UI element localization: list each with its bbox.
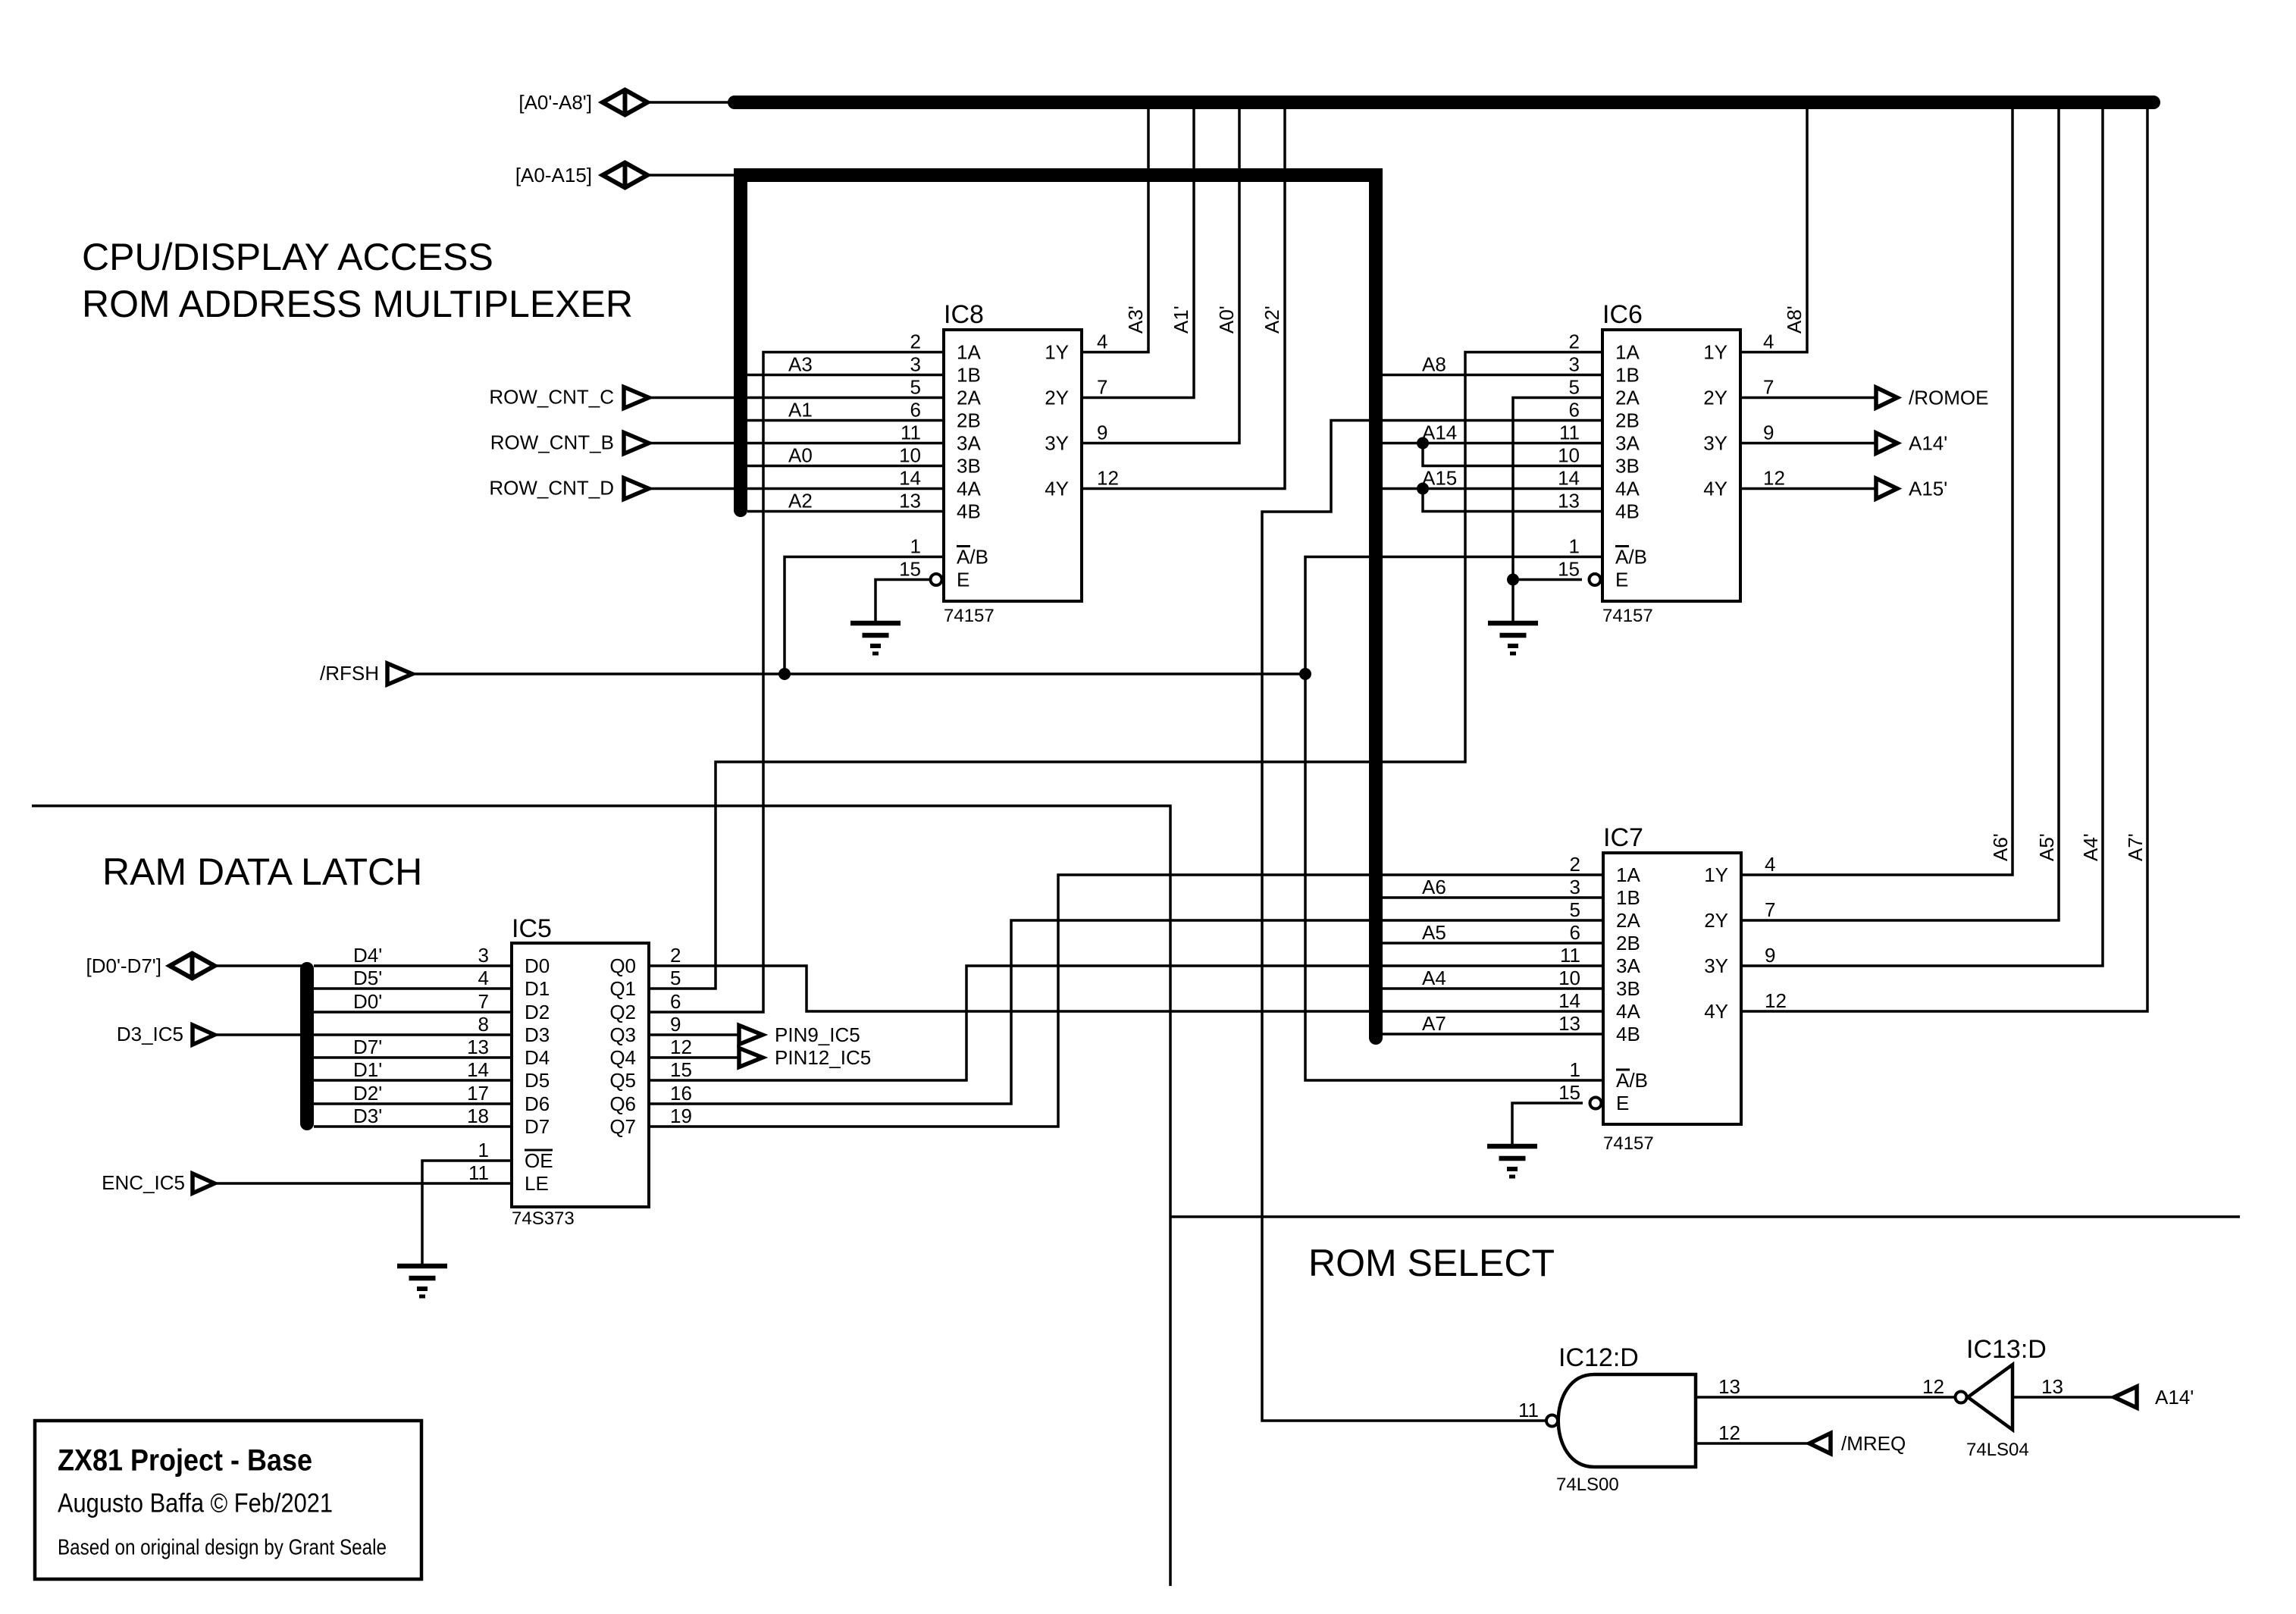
svg-text:14: 14 xyxy=(1558,989,1580,1012)
svg-text:11: 11 xyxy=(1518,1399,1539,1421)
svg-text:ZX81 Project - Base: ZX81 Project - Base xyxy=(58,1444,312,1478)
input arrow /RFSH xyxy=(387,663,412,685)
svg-text:Q2: Q2 xyxy=(609,1001,636,1023)
svg-text:7: 7 xyxy=(1763,376,1774,399)
input arrow ENC_IC5 xyxy=(193,1174,215,1193)
svg-text:IC12:D: IC12:D xyxy=(1558,1343,1639,1372)
svg-text:9: 9 xyxy=(1765,944,1775,967)
svg-text:1: 1 xyxy=(1569,535,1580,558)
svg-text:Q1: Q1 xyxy=(609,977,636,1000)
ground IC5 OE xyxy=(397,1266,447,1296)
svg-text:ROW_CNT_B: ROW_CNT_B xyxy=(490,431,614,454)
svg-text:3B: 3B xyxy=(1615,455,1640,478)
svg-text:6: 6 xyxy=(1569,399,1580,422)
svg-text:1Y: 1Y xyxy=(1045,341,1069,364)
svg-text:IC13:D: IC13:D xyxy=(1966,1335,2047,1364)
svg-text:2Y: 2Y xyxy=(1045,387,1069,409)
svg-text:74S373: 74S373 xyxy=(512,1208,575,1229)
svg-text:3: 3 xyxy=(1570,876,1580,898)
svg-text:9: 9 xyxy=(670,1013,681,1036)
svg-text:1: 1 xyxy=(1570,1058,1580,1081)
output arrow A14' xyxy=(1876,433,1897,453)
svg-text:1A: 1A xyxy=(957,341,981,364)
wire A6 from bus to IC7 1B xyxy=(1383,896,1603,899)
svg-text:74157: 74157 xyxy=(1602,606,1653,626)
input arrow ROW_CNT_D xyxy=(624,478,649,500)
svg-text:6: 6 xyxy=(1570,921,1580,944)
wire A15 to IC6 4B xyxy=(1423,489,1602,512)
svg-text:A15': A15' xyxy=(1909,478,1947,500)
svg-text:7: 7 xyxy=(478,990,489,1013)
wire A4 from bus to IC7 3B xyxy=(1383,987,1603,990)
svg-text:D1': D1' xyxy=(353,1058,382,1081)
svg-text:OE: OE xyxy=(525,1149,553,1172)
svg-text:11: 11 xyxy=(901,422,921,444)
output arrow PIN12_IC5 xyxy=(739,1048,763,1067)
wire ROW_CNT_D to IC8 4A xyxy=(649,487,944,490)
svg-text:11: 11 xyxy=(1560,944,1580,967)
svg-text:12: 12 xyxy=(670,1036,692,1058)
svg-text:Q5: Q5 xyxy=(609,1069,636,1092)
svg-text:RAM DATA LATCH: RAM DATA LATCH xyxy=(102,851,422,893)
wire bus entry A0-A15 to bus xyxy=(647,174,734,177)
wire IC7 2Y to bus A5' xyxy=(1741,102,2059,920)
svg-text:4A: 4A xyxy=(957,478,981,500)
svg-text:D6: D6 xyxy=(525,1092,550,1115)
svg-text:PIN12_IC5: PIN12_IC5 xyxy=(775,1046,871,1069)
arrow A14' input xyxy=(2114,1387,2137,1408)
wire IC8 2Y to bus A1' xyxy=(1082,102,1194,398)
svg-text:A/B: A/B xyxy=(957,546,988,569)
IC13:D input bubble pin 12 xyxy=(1956,1392,1967,1403)
input arrow D3_IC5 xyxy=(193,1025,215,1045)
wire A15 from bus to IC6 4A xyxy=(1383,487,1602,490)
wire D5' from bus to IC5 D1 xyxy=(314,987,512,990)
svg-text:4: 4 xyxy=(478,967,489,989)
svg-text:13: 13 xyxy=(2041,1375,2063,1398)
svg-text:Q7: Q7 xyxy=(609,1115,636,1138)
wire A7 from bus to IC7 4B xyxy=(1383,1033,1603,1036)
wire IC13:D pin 13 to A14' xyxy=(2013,1396,2114,1399)
svg-text:19: 19 xyxy=(670,1105,692,1127)
svg-text:D0': D0' xyxy=(353,990,382,1013)
arrow /MREQ xyxy=(1809,1434,1831,1454)
output arrow A15' xyxy=(1876,478,1897,499)
svg-text:ENC_IC5: ENC_IC5 xyxy=(102,1171,185,1194)
wire IC8 1Y to bus A3' xyxy=(1082,102,1148,353)
wire IC5 Q7 to IC7 1A xyxy=(649,875,1603,1127)
svg-text:12: 12 xyxy=(1765,989,1787,1012)
svg-text:1A: 1A xyxy=(1615,341,1640,364)
wire D1' from bus to IC5 D5 xyxy=(314,1079,512,1082)
svg-text:D4': D4' xyxy=(353,944,382,967)
svg-text:3: 3 xyxy=(1569,353,1580,376)
svg-text:D2': D2' xyxy=(353,1082,382,1105)
svg-text:ROW_CNT_D: ROW_CNT_D xyxy=(489,477,614,500)
wire IC5 Q5 to IC7 3A xyxy=(649,966,1603,1080)
svg-text:A/B: A/B xyxy=(1616,1069,1648,1092)
svg-text:ROW_CNT_C: ROW_CNT_C xyxy=(489,386,614,409)
IC5 74S373 latch box xyxy=(512,943,649,1207)
svg-text:[A0'-A8']: [A0'-A8'] xyxy=(518,91,592,114)
wire A2 from bus to IC8 4B xyxy=(747,510,944,513)
svg-text:A2: A2 xyxy=(788,490,813,512)
svg-text:4Y: 4Y xyxy=(1704,1000,1728,1023)
svg-text:5: 5 xyxy=(670,967,681,989)
svg-text:11: 11 xyxy=(468,1161,489,1184)
svg-text:3: 3 xyxy=(910,353,921,376)
svg-text:IC6: IC6 xyxy=(1602,300,1643,329)
svg-text:5: 5 xyxy=(910,376,921,399)
bus [D0'-D7'] vertical xyxy=(300,969,314,1124)
wire IC5 Q6 to IC7 2A xyxy=(649,920,1603,1104)
svg-text:Augusto Baffa © Feb/2021: Augusto Baffa © Feb/2021 xyxy=(58,1489,333,1518)
svg-text:A1': A1' xyxy=(1170,306,1192,334)
svg-text:A2': A2' xyxy=(1261,306,1283,334)
svg-text:Q0: Q0 xyxy=(609,954,636,977)
svg-text:17: 17 xyxy=(467,1082,489,1105)
svg-text:A1: A1 xyxy=(788,399,813,422)
svg-text:2Y: 2Y xyxy=(1703,387,1727,409)
svg-text:A14': A14' xyxy=(2155,1386,2194,1409)
svg-text:/RFSH: /RFSH xyxy=(320,662,379,685)
svg-text:8: 8 xyxy=(478,1013,489,1036)
ground IC6 2A/E xyxy=(1488,623,1538,653)
wire IC6 2Y to /ROMOE xyxy=(1740,396,1876,400)
wire IC6 1Y to bus A8' xyxy=(1740,102,1807,353)
svg-text:A7': A7' xyxy=(2124,833,2147,861)
svg-text:A8': A8' xyxy=(1783,306,1806,334)
svg-text:3A: 3A xyxy=(1616,954,1640,977)
wire D7' from bus to IC5 D4 xyxy=(314,1056,512,1059)
svg-text:7: 7 xyxy=(1765,898,1775,921)
svg-text:4B: 4B xyxy=(1615,500,1640,523)
svg-text:ROM ADDRESS MULTIPLEXER: ROM ADDRESS MULTIPLEXER xyxy=(82,283,633,325)
svg-text:2A: 2A xyxy=(1615,387,1640,409)
svg-text:A3': A3' xyxy=(1124,306,1147,334)
svg-text:A/B: A/B xyxy=(1615,546,1647,569)
svg-text:7: 7 xyxy=(1097,376,1107,399)
svg-text:D2: D2 xyxy=(525,1001,550,1023)
svg-text:D3': D3' xyxy=(353,1105,382,1127)
svg-text:14: 14 xyxy=(899,467,921,490)
input arrow ROW_CNT_B xyxy=(624,433,649,454)
svg-text:13: 13 xyxy=(899,490,921,512)
IC8 74157 multiplexer box xyxy=(944,330,1082,601)
wire A5 from bus to IC7 2B xyxy=(1383,942,1603,945)
svg-text:D5': D5' xyxy=(353,967,382,989)
svg-text:4A: 4A xyxy=(1616,1000,1640,1023)
wire IC7 E to ground xyxy=(1512,1103,1583,1146)
svg-text:4Y: 4Y xyxy=(1045,478,1069,500)
svg-text:15: 15 xyxy=(899,558,921,581)
svg-text:13: 13 xyxy=(467,1036,489,1058)
svg-text:E: E xyxy=(1615,569,1628,591)
bus entry [D0'-D7'] xyxy=(170,954,215,979)
bus [A0'-A8'] top horizontal xyxy=(735,96,2153,109)
svg-text:Q3: Q3 xyxy=(609,1023,636,1046)
svg-text:A8: A8 xyxy=(1422,353,1446,376)
svg-text:9: 9 xyxy=(1097,422,1107,444)
svg-text:[D0'-D7']: [D0'-D7'] xyxy=(86,954,161,977)
svg-text:PIN9_IC5: PIN9_IC5 xyxy=(775,1023,860,1046)
svg-text:A7: A7 xyxy=(1422,1012,1446,1035)
svg-text:3: 3 xyxy=(478,944,489,967)
wire D3_IC5 to IC5 D3 xyxy=(215,1033,512,1036)
svg-text:2Y: 2Y xyxy=(1704,909,1728,932)
wire IC7 3Y to bus A4' xyxy=(1741,102,2103,966)
svg-text:2B: 2B xyxy=(1616,932,1640,954)
wire A14 to IC6 3B xyxy=(1423,443,1602,466)
svg-text:2: 2 xyxy=(670,944,681,967)
svg-text:16: 16 xyxy=(670,1082,692,1105)
ground IC8 E xyxy=(850,623,901,653)
IC6 74157 multiplexer box xyxy=(1602,330,1740,601)
wire IC5 Q4 to PIN12_IC5 xyxy=(649,1056,738,1059)
wire D2' from bus to IC5 D6 xyxy=(314,1102,512,1105)
svg-text:1B: 1B xyxy=(1615,364,1640,387)
svg-text:2: 2 xyxy=(910,331,921,353)
svg-text:IC7: IC7 xyxy=(1603,823,1643,852)
wire IC6 2B to NAND IC12:D input 11 xyxy=(1262,421,1602,1421)
wire A8 from bus to IC6 1B xyxy=(1383,374,1602,377)
wire IC6 2A to ground xyxy=(1513,398,1602,624)
wire /RFSH xyxy=(412,672,1305,675)
svg-text:4Y: 4Y xyxy=(1703,478,1727,500)
svg-text:IC5: IC5 xyxy=(512,914,552,943)
svg-text:D3: D3 xyxy=(525,1023,550,1046)
svg-text:13: 13 xyxy=(1718,1375,1740,1398)
junction A15 xyxy=(1417,483,1429,495)
wire A0 from bus to IC8 3B xyxy=(747,465,944,468)
svg-text:1B: 1B xyxy=(957,364,981,387)
svg-text:12: 12 xyxy=(1763,467,1785,490)
wire ROW_CNT_C to IC8 2A xyxy=(649,396,944,400)
svg-text:A4': A4' xyxy=(2079,833,2102,861)
svg-text:A14': A14' xyxy=(1909,432,1947,455)
svg-text:D1: D1 xyxy=(525,977,550,1000)
wire long net from left edge down to bottom xyxy=(32,806,1170,1586)
wire IC6 3Y to A14' xyxy=(1740,442,1876,445)
svg-text:/MREQ: /MREQ xyxy=(1841,1432,1906,1455)
wire A1 from bus to IC8 2B xyxy=(747,419,944,422)
svg-text:4: 4 xyxy=(1097,331,1107,353)
wire IC12:D pin 13 to IC13:D pin 12 xyxy=(1696,1396,1954,1399)
output arrow PIN9_IC5 xyxy=(739,1026,763,1045)
svg-text:Q4: Q4 xyxy=(609,1046,636,1069)
IC6 E inverting bubble xyxy=(1590,574,1601,585)
nand gate IC12:D 74LS00 xyxy=(1558,1374,1696,1467)
wire IC6 E to ground stub xyxy=(1513,578,1582,581)
svg-text:74LS04: 74LS04 xyxy=(1966,1440,2029,1460)
svg-text:3Y: 3Y xyxy=(1704,954,1728,977)
bus entry [A0'-A8'] xyxy=(603,90,647,115)
wire IC5 Q1 to IC6 1A xyxy=(649,353,1602,989)
svg-text:6: 6 xyxy=(670,990,681,1013)
svg-text:[A0-A15]: [A0-A15] xyxy=(515,164,592,186)
IC7 E inverting bubble xyxy=(1590,1098,1602,1109)
wire IC8 3Y to bus A0' xyxy=(1082,102,1239,443)
svg-text:11: 11 xyxy=(1559,422,1580,444)
junction /RFSH - A/B riser xyxy=(1299,668,1311,680)
svg-text:12: 12 xyxy=(1718,1421,1740,1444)
svg-text:2A: 2A xyxy=(957,387,981,409)
svg-text:3B: 3B xyxy=(1616,977,1640,1000)
output arrow /ROMOE xyxy=(1876,387,1897,408)
bus entry [A0-A15] xyxy=(603,163,647,188)
junction A14 xyxy=(1417,437,1429,450)
IC7 74157 multiplexer box xyxy=(1603,853,1741,1124)
inverter IC13:D 74LS04 xyxy=(1968,1365,2013,1430)
svg-text:15: 15 xyxy=(1558,1081,1580,1104)
svg-text:5: 5 xyxy=(1569,376,1580,399)
svg-text:10: 10 xyxy=(1558,444,1580,467)
svg-text:10: 10 xyxy=(899,444,921,467)
svg-text:1Y: 1Y xyxy=(1703,341,1727,364)
svg-text:A0': A0' xyxy=(1215,306,1238,334)
svg-text:Q6: Q6 xyxy=(609,1092,636,1115)
svg-text:E: E xyxy=(957,569,969,591)
svg-text:Based on original design by Gr: Based on original design by Grant Seale xyxy=(58,1536,387,1560)
wire D0' from bus to IC5 D2 xyxy=(314,1011,512,1014)
svg-text:IC8: IC8 xyxy=(944,300,984,329)
svg-text:A0: A0 xyxy=(788,444,813,467)
svg-text:D7': D7' xyxy=(353,1036,382,1058)
wire D3' from bus to IC5 D7 xyxy=(314,1125,512,1128)
IC12:D output bubble pin 11 xyxy=(1546,1415,1558,1427)
svg-text:1Y: 1Y xyxy=(1704,863,1728,886)
wire bus entry A0'-A8' to bus xyxy=(647,101,735,104)
wire A3 from bus to IC8 1B xyxy=(747,374,944,377)
svg-text:E: E xyxy=(1616,1092,1629,1114)
svg-text:CPU/DISPLAY ACCESS: CPU/DISPLAY ACCESS xyxy=(82,236,493,278)
svg-text:3A: 3A xyxy=(957,432,981,455)
input arrow ROW_CNT_C xyxy=(624,387,649,409)
svg-text:4B: 4B xyxy=(1616,1023,1640,1045)
wire IC12:D pin 12 to /MREQ xyxy=(1696,1442,1809,1445)
svg-text:A6': A6' xyxy=(1989,833,2012,861)
svg-text:12: 12 xyxy=(1922,1375,1944,1398)
svg-text:4: 4 xyxy=(1765,853,1775,876)
svg-text:14: 14 xyxy=(1558,467,1580,490)
svg-text:2: 2 xyxy=(1569,331,1580,353)
svg-text:10: 10 xyxy=(1558,967,1580,989)
svg-text:74157: 74157 xyxy=(944,606,995,626)
wire A14 from bus to IC6 3A xyxy=(1383,442,1602,445)
svg-text:74157: 74157 xyxy=(1603,1133,1654,1154)
svg-text:D5: D5 xyxy=(525,1069,550,1092)
ground IC7 E xyxy=(1487,1146,1537,1177)
wire IC5 Q2 to IC8 1A xyxy=(649,353,944,1013)
svg-text:2A: 2A xyxy=(1616,909,1640,932)
svg-text:A6: A6 xyxy=(1422,876,1446,898)
svg-text:A4: A4 xyxy=(1422,967,1446,989)
svg-text:74LS00: 74LS00 xyxy=(1556,1475,1619,1495)
svg-text:ROM SELECT: ROM SELECT xyxy=(1308,1242,1555,1284)
svg-text:1B: 1B xyxy=(1616,886,1640,909)
svg-text:3A: 3A xyxy=(1615,432,1640,455)
svg-text:4: 4 xyxy=(1763,331,1774,353)
svg-text:2B: 2B xyxy=(1615,409,1640,432)
svg-text:A5: A5 xyxy=(1422,921,1446,944)
wire IC5 Q3 to PIN9_IC5 xyxy=(649,1033,738,1036)
svg-text:13: 13 xyxy=(1558,1012,1580,1035)
svg-text:D0: D0 xyxy=(525,954,550,977)
svg-text:2: 2 xyxy=(1570,853,1580,876)
title block box xyxy=(35,1421,421,1579)
svg-text:1A: 1A xyxy=(1616,863,1640,886)
svg-text:A3: A3 xyxy=(788,353,813,376)
svg-text:4A: 4A xyxy=(1615,478,1640,500)
wire IC6 4Y to A15' xyxy=(1740,487,1876,490)
svg-text:LE: LE xyxy=(525,1172,549,1195)
wire bus entry D0'-D7' to bus xyxy=(215,964,307,967)
wire ROW_CNT_B to IC8 3A xyxy=(649,442,944,445)
svg-text:D4: D4 xyxy=(525,1046,550,1069)
svg-text:3Y: 3Y xyxy=(1703,432,1727,455)
wire branch to right edge xyxy=(1170,1215,2240,1218)
wire ENC_IC5 to IC5 LE xyxy=(215,1182,512,1185)
svg-text:3B: 3B xyxy=(957,455,981,478)
wire IC6 A/B - /RFSH - IC7 A/B xyxy=(1305,557,1603,1081)
svg-text:D7: D7 xyxy=(525,1115,550,1138)
svg-text:9: 9 xyxy=(1763,422,1774,444)
svg-text:D3_IC5: D3_IC5 xyxy=(117,1023,183,1045)
svg-text:18: 18 xyxy=(467,1105,489,1127)
wire IC7 4Y to bus A7' xyxy=(1741,102,2147,1011)
svg-text:/ROMOE: /ROMOE xyxy=(1909,387,1988,409)
svg-text:15: 15 xyxy=(1558,558,1580,581)
junction /RFSH - IC8 A/B xyxy=(778,668,791,680)
svg-text:15: 15 xyxy=(670,1058,692,1081)
bus [A0-A15] horizontal + two thick verticals xyxy=(741,175,1376,1038)
wire IC8 4Y to bus A2' xyxy=(1082,102,1285,489)
wire D4' from bus to IC5 D0 xyxy=(314,964,512,967)
wire IC8 E to ground xyxy=(875,580,930,624)
wire IC5 OE to ground xyxy=(422,1161,512,1266)
svg-text:1: 1 xyxy=(910,535,921,558)
svg-text:13: 13 xyxy=(1558,490,1580,512)
svg-text:A5': A5' xyxy=(2035,833,2058,861)
svg-text:1: 1 xyxy=(478,1139,489,1161)
svg-text:6: 6 xyxy=(910,399,921,422)
svg-text:5: 5 xyxy=(1570,898,1580,921)
svg-text:12: 12 xyxy=(1097,467,1119,490)
IC8 E inverting bubble xyxy=(931,574,942,585)
wire IC8 A/B to /RFSH xyxy=(785,557,944,675)
junction IC6 2A/E xyxy=(1507,574,1519,586)
svg-text:2B: 2B xyxy=(957,409,981,432)
svg-text:4B: 4B xyxy=(957,500,981,523)
svg-text:14: 14 xyxy=(467,1058,489,1081)
svg-text:3Y: 3Y xyxy=(1045,432,1069,455)
wire IC7 1Y to bus A6' xyxy=(1741,102,2013,875)
wire IC5 Q0 to IC7 4A xyxy=(649,966,1603,1011)
